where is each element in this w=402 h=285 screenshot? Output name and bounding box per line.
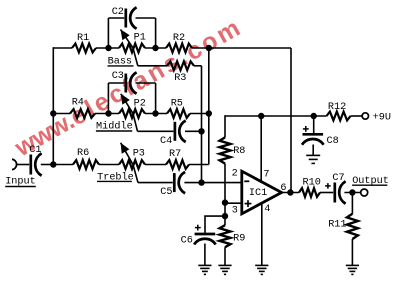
svg-text:P1: P1 bbox=[134, 32, 146, 43]
svg-text:R9: R9 bbox=[233, 234, 245, 245]
ground C8 bbox=[306, 155, 320, 163]
wire bbox=[53, 164, 73, 166]
resistor R6 bbox=[73, 160, 99, 169]
wire bbox=[204, 244, 206, 266]
resistor R5 bbox=[167, 109, 190, 118]
resistor R3 bbox=[167, 61, 194, 70]
wire bbox=[108, 17, 124, 19]
wire bbox=[320, 192, 333, 194]
wire left bus bbox=[52, 47, 54, 164]
capacitor C1 bbox=[31, 153, 42, 175]
wire bbox=[138, 130, 174, 132]
plus sign pin3 bbox=[245, 200, 252, 207]
svg-text:P2: P2 bbox=[134, 98, 146, 109]
resistor R1 bbox=[72, 44, 96, 53]
label P2 bbox=[134, 98, 146, 109]
pin 6 label bbox=[280, 183, 286, 194]
wire bbox=[155, 83, 157, 114]
label IC1 bbox=[249, 188, 267, 199]
wire bbox=[136, 17, 156, 19]
wire bbox=[138, 182, 173, 184]
svg-text:C3: C3 bbox=[112, 71, 124, 82]
label Bass bbox=[108, 57, 134, 68]
label C3 bbox=[112, 71, 124, 82]
node C8-tap bbox=[311, 113, 317, 119]
wire bbox=[351, 239, 353, 265]
label R6 bbox=[77, 148, 89, 159]
node pin7-tap bbox=[258, 113, 264, 119]
svg-text:R8: R8 bbox=[233, 146, 245, 157]
pin 4 wire bbox=[261, 203, 263, 265]
wire bbox=[282, 192, 299, 194]
pin 2 label bbox=[232, 169, 238, 180]
label C4 bbox=[160, 136, 172, 147]
capacitor C5 bbox=[174, 172, 185, 193]
label R3 bbox=[174, 73, 186, 84]
resistor R7 bbox=[166, 160, 189, 169]
wire bbox=[190, 113, 209, 115]
svg-text:4: 4 bbox=[264, 204, 270, 215]
wire bbox=[138, 65, 167, 67]
svg-text:R3: R3 bbox=[174, 73, 186, 84]
wire bbox=[96, 47, 119, 49]
svg-text:R12: R12 bbox=[328, 102, 346, 113]
resistor R2 bbox=[166, 44, 192, 53]
label C7 bbox=[332, 173, 344, 184]
plus C7 bbox=[325, 183, 331, 189]
svg-text:IC1: IC1 bbox=[249, 188, 267, 199]
wire bbox=[53, 47, 72, 49]
pin 3 label bbox=[232, 205, 238, 216]
wire C6 branch bbox=[205, 216, 225, 233]
label Output bbox=[352, 176, 389, 187]
label R4 bbox=[72, 98, 84, 109]
svg-text:C6: C6 bbox=[181, 235, 193, 246]
P1 wiper shaft bbox=[121, 29, 138, 65]
svg-text:C8: C8 bbox=[327, 136, 339, 147]
pin 4 label bbox=[264, 204, 270, 215]
svg-text:C7: C7 bbox=[332, 173, 344, 184]
svg-text:C1: C1 bbox=[29, 145, 41, 156]
wire bbox=[41, 164, 54, 166]
potentiometer P1 bbox=[119, 44, 145, 53]
wire bbox=[107, 18, 109, 48]
wire bbox=[312, 145, 314, 156]
label C8 bbox=[327, 136, 339, 147]
input terminal bbox=[12, 159, 17, 170]
pin 7 label bbox=[263, 169, 269, 180]
svg-text:C4: C4 bbox=[160, 136, 172, 147]
resistor R10 bbox=[299, 188, 320, 197]
svg-text:R5: R5 bbox=[171, 99, 183, 110]
capacitor C7 bbox=[335, 181, 346, 203]
label R1 bbox=[77, 33, 89, 44]
wire bbox=[145, 113, 167, 115]
plus C6 bbox=[195, 225, 201, 231]
wire bbox=[351, 115, 363, 117]
node R9-tap bbox=[222, 213, 228, 219]
wire pin3 bbox=[225, 202, 242, 204]
resistor R9 bbox=[220, 225, 231, 247]
node bus-middle bbox=[50, 110, 56, 116]
label R8 bbox=[233, 146, 245, 157]
resistor R12 bbox=[327, 112, 351, 121]
label R9 bbox=[233, 234, 245, 245]
label Middle bbox=[96, 121, 133, 133]
wire bbox=[185, 130, 202, 132]
node output bbox=[287, 189, 293, 195]
wire feedback drop bbox=[290, 48, 292, 193]
node C4-tap bbox=[198, 128, 204, 134]
wire rail bbox=[225, 115, 327, 117]
label R5 bbox=[171, 99, 183, 110]
svg-text:C2: C2 bbox=[112, 7, 124, 18]
node bus-input bbox=[50, 161, 56, 167]
wire bbox=[145, 47, 166, 49]
resistor R4 bbox=[70, 109, 95, 118]
svg-text:+9U: +9U bbox=[373, 112, 391, 123]
op-amp U1 IC1 bbox=[242, 171, 282, 214]
svg-text:R4: R4 bbox=[72, 98, 84, 109]
svg-text:7: 7 bbox=[263, 169, 269, 180]
wire bbox=[95, 113, 119, 115]
label R11 bbox=[328, 220, 346, 231]
wire bbox=[155, 18, 157, 48]
plus C8 bbox=[303, 126, 309, 132]
watermark www.elecfans.com bbox=[10, 13, 248, 163]
wire bbox=[351, 193, 353, 214]
wire pin2 row bbox=[184, 182, 241, 184]
node C-top bbox=[206, 45, 212, 51]
wire bbox=[107, 83, 109, 114]
P1 wiper arrow bbox=[121, 29, 130, 40]
svg-text:2: 2 bbox=[232, 169, 238, 180]
svg-text:C5: C5 bbox=[160, 187, 172, 198]
node B1 bbox=[152, 45, 158, 51]
label P3 bbox=[133, 149, 145, 160]
ground R11 bbox=[346, 265, 359, 274]
wire bbox=[224, 216, 226, 225]
wire bbox=[224, 247, 226, 265]
wire bbox=[189, 164, 209, 166]
wire bbox=[224, 164, 226, 217]
node A2 bbox=[105, 110, 111, 116]
capacitor C2 bbox=[126, 7, 137, 28]
P3 wiper shaft bbox=[121, 143, 138, 183]
ground C6 bbox=[198, 265, 211, 274]
P3 wiper arrow bbox=[121, 143, 130, 154]
wire bbox=[17, 164, 30, 166]
P2 wiper arrow bbox=[121, 94, 130, 105]
wire bbox=[136, 82, 156, 84]
label +9V bbox=[373, 112, 391, 123]
svg-text:R7: R7 bbox=[169, 149, 181, 160]
svg-text:3: 3 bbox=[232, 205, 238, 216]
label C2 bbox=[112, 7, 124, 18]
wire bbox=[344, 192, 361, 194]
label C6 bbox=[181, 235, 193, 246]
node B2 bbox=[152, 110, 158, 116]
resistor R8 bbox=[220, 137, 231, 163]
wire feedback top bbox=[192, 47, 291, 49]
ground pin4 bbox=[255, 265, 268, 274]
wire bbox=[99, 164, 119, 166]
capacitor C8 bbox=[302, 134, 324, 145]
wire feedback bus bbox=[208, 48, 210, 165]
label C5 bbox=[160, 187, 172, 198]
svg-text:R11: R11 bbox=[328, 220, 346, 231]
label C1 bbox=[29, 145, 41, 156]
label R10 bbox=[303, 178, 321, 189]
label R2 bbox=[173, 33, 185, 44]
svg-text:R6: R6 bbox=[77, 148, 89, 159]
node pin3-tap bbox=[222, 199, 228, 205]
capacitor C6 bbox=[194, 234, 216, 245]
wire C8 branch bbox=[313, 116, 315, 133]
wire R8 top bbox=[224, 115, 226, 137]
wire bbox=[194, 65, 202, 67]
node C-mid bbox=[206, 110, 212, 116]
capacitor C4 bbox=[175, 121, 186, 142]
label Input bbox=[5, 177, 36, 188]
minus sign bbox=[244, 180, 249, 182]
potentiometer P2 bbox=[119, 109, 145, 118]
pin 7 wire bbox=[260, 116, 262, 182]
wire bbox=[53, 113, 70, 115]
resistor R11 bbox=[347, 214, 358, 239]
svg-text:R10: R10 bbox=[303, 178, 321, 189]
wire bbox=[108, 82, 124, 84]
label R7 bbox=[169, 149, 181, 160]
label P1 bbox=[134, 32, 146, 43]
ground R9 bbox=[218, 265, 231, 274]
potentiometer P3 bbox=[119, 160, 145, 169]
terminal Output bbox=[361, 189, 368, 196]
wire wiper bus bbox=[201, 66, 203, 183]
svg-text:R1: R1 bbox=[77, 33, 89, 44]
label Treble bbox=[97, 171, 134, 183]
node C5-tap bbox=[198, 179, 204, 185]
wire bbox=[145, 164, 166, 166]
svg-text:R2: R2 bbox=[173, 33, 185, 44]
node A1 bbox=[105, 45, 111, 51]
label R12 bbox=[328, 102, 346, 113]
terminal +9V bbox=[362, 113, 368, 119]
node R11-tap bbox=[349, 189, 355, 195]
capacitor C3 bbox=[126, 72, 137, 93]
svg-text:P3: P3 bbox=[133, 149, 145, 160]
P2 wiper shaft bbox=[121, 94, 138, 132]
